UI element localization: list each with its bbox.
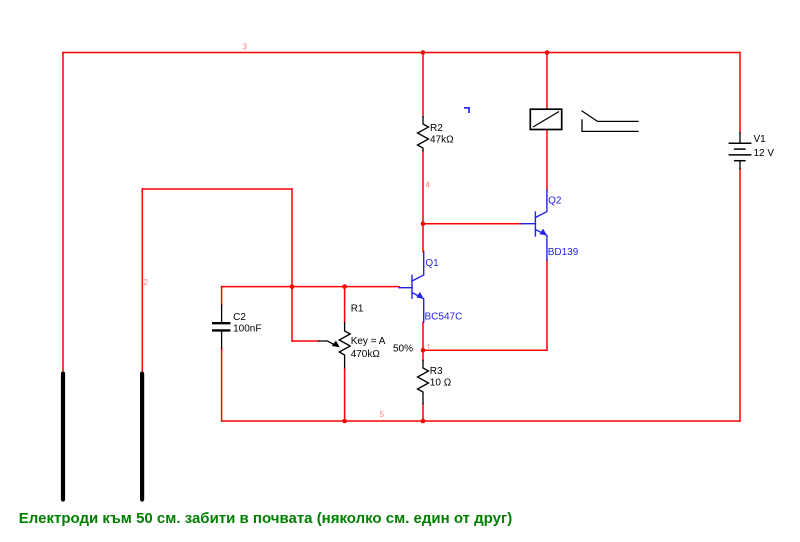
- svg-text:47kΩ: 47kΩ: [430, 134, 454, 145]
- svg-text:470kΩ: 470kΩ: [351, 349, 381, 360]
- svg-text:R3: R3: [430, 366, 443, 377]
- svg-text:Key = A: Key = A: [351, 336, 386, 347]
- svg-text:5: 5: [380, 410, 385, 419]
- svg-text:12 V: 12 V: [754, 148, 775, 159]
- svg-text:V1: V1: [754, 134, 767, 145]
- svg-text:BC547C: BC547C: [425, 312, 463, 323]
- svg-text:3: 3: [243, 43, 248, 52]
- svg-text:50%: 50%: [393, 343, 413, 354]
- svg-text:Q2: Q2: [548, 196, 562, 207]
- svg-text:Електроди към 50 см. забити в: Електроди към 50 см. забити в почвата (н…: [19, 510, 512, 527]
- svg-text:100nF: 100nF: [233, 324, 261, 335]
- svg-text:C2: C2: [233, 312, 246, 323]
- svg-text:R1: R1: [351, 304, 364, 315]
- svg-text:1: 1: [427, 343, 432, 352]
- svg-text:4: 4: [426, 181, 431, 190]
- svg-text:BD139: BD139: [548, 247, 579, 258]
- svg-text:Q1: Q1: [425, 258, 439, 269]
- svg-text:10 Ω: 10 Ω: [430, 378, 452, 389]
- svg-text:R2: R2: [430, 123, 443, 134]
- svg-text:2: 2: [144, 278, 149, 287]
